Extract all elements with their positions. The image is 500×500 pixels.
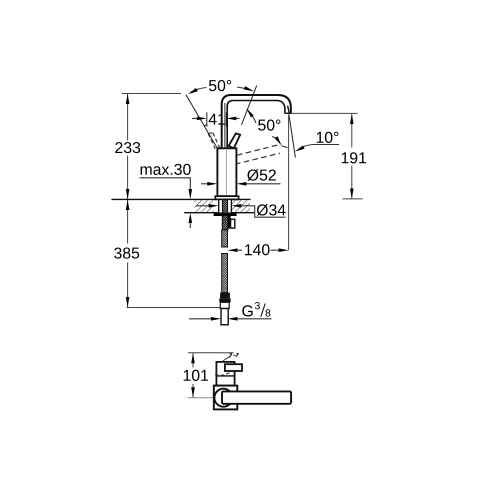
arrow 233 bottom <box>126 189 130 199</box>
threaded core <box>222 199 227 213</box>
counter hatch right <box>231 200 250 212</box>
spout mid line <box>224 103 226 148</box>
dimension O52 <box>201 183 208 185</box>
threaded shank below washer <box>222 216 228 230</box>
dimension 385 line <box>127 200 129 307</box>
body base flange <box>215 196 238 199</box>
faucet body <box>217 148 236 196</box>
max.30 lower arrow <box>189 213 193 223</box>
label 10 deg <box>317 132 339 143</box>
spout outer outline <box>222 95 291 148</box>
counter hatch left <box>195 200 214 212</box>
label O34 <box>257 204 286 216</box>
plan body circle <box>214 389 232 407</box>
dimension O34 <box>196 205 210 207</box>
wire: extension bottom of 101 <box>188 397 214 399</box>
aerator outlet lines <box>285 106 291 114</box>
plan handle bar <box>222 391 291 403</box>
wire: vertical extension at x 288.6 <box>288 115 290 251</box>
label 41 <box>209 114 225 125</box>
dimension G3/8 <box>189 318 212 320</box>
wire: top extension line of 233 <box>122 93 181 95</box>
dashed swivel handle left <box>204 125 220 149</box>
counter top line <box>111 198 250 200</box>
plan spout column mid line <box>216 375 234 377</box>
arrow 385 bottom <box>126 297 130 307</box>
10 deg slant line <box>289 114 296 157</box>
hose hex fitting <box>220 293 230 299</box>
line B swivel extension right <box>242 86 257 125</box>
braided hose upper <box>222 230 228 247</box>
arrow 191 bottom <box>350 189 354 199</box>
handle lever <box>229 133 241 148</box>
wire: extension line counter level right <box>343 198 363 200</box>
arrow 233 top <box>126 94 130 104</box>
wire: extension top of 101 <box>188 352 234 354</box>
braided hose lower <box>222 254 228 293</box>
arrow 191 top <box>350 114 354 124</box>
line A swivel extension left <box>186 95 219 151</box>
label 101 <box>184 370 208 381</box>
label 50 deg top <box>209 80 231 91</box>
label 385 <box>114 247 139 258</box>
leader right of 50 deg top <box>237 87 247 89</box>
label G3/8 <box>242 305 252 316</box>
label O52 <box>247 169 276 181</box>
arc 50 deg right lower <box>272 137 277 139</box>
leader 10 deg <box>299 145 340 150</box>
plan tiny marks <box>229 354 239 358</box>
plan spout nozzle bar <box>225 364 242 371</box>
wire: bottom extension line of 385 <box>127 307 220 309</box>
leader left of 50 deg top <box>191 88 207 93</box>
counter bottom line <box>184 212 255 214</box>
label 191 <box>342 152 366 163</box>
dashed swivel spout lines <box>235 144 281 164</box>
dimension 233 line <box>127 94 129 199</box>
dimension 191 line <box>351 114 353 199</box>
below washer fitting block <box>228 216 231 229</box>
arrow 385 top <box>126 200 130 210</box>
dimension 101 <box>192 353 194 397</box>
plan dashed swivel arc <box>215 372 231 376</box>
plan base square <box>214 386 238 410</box>
arc 50 deg right upper <box>252 115 257 123</box>
leader max.30 <box>140 177 192 179</box>
shank through counter <box>219 199 232 213</box>
dimension 140 <box>228 248 238 252</box>
wire: extension line outlet level <box>291 112 358 114</box>
label max.30 <box>141 164 191 175</box>
spout inner outline <box>227 101 285 149</box>
body axis line <box>225 150 227 195</box>
dimension 41 ticks <box>207 112 227 126</box>
hose end tube <box>221 309 228 325</box>
label 50 deg right <box>258 119 280 130</box>
plan spout column <box>216 362 234 386</box>
plan tiny leader <box>223 357 229 361</box>
mounting washer <box>214 213 237 216</box>
dimension 41 arrows <box>192 117 198 119</box>
label 233 <box>115 142 140 153</box>
